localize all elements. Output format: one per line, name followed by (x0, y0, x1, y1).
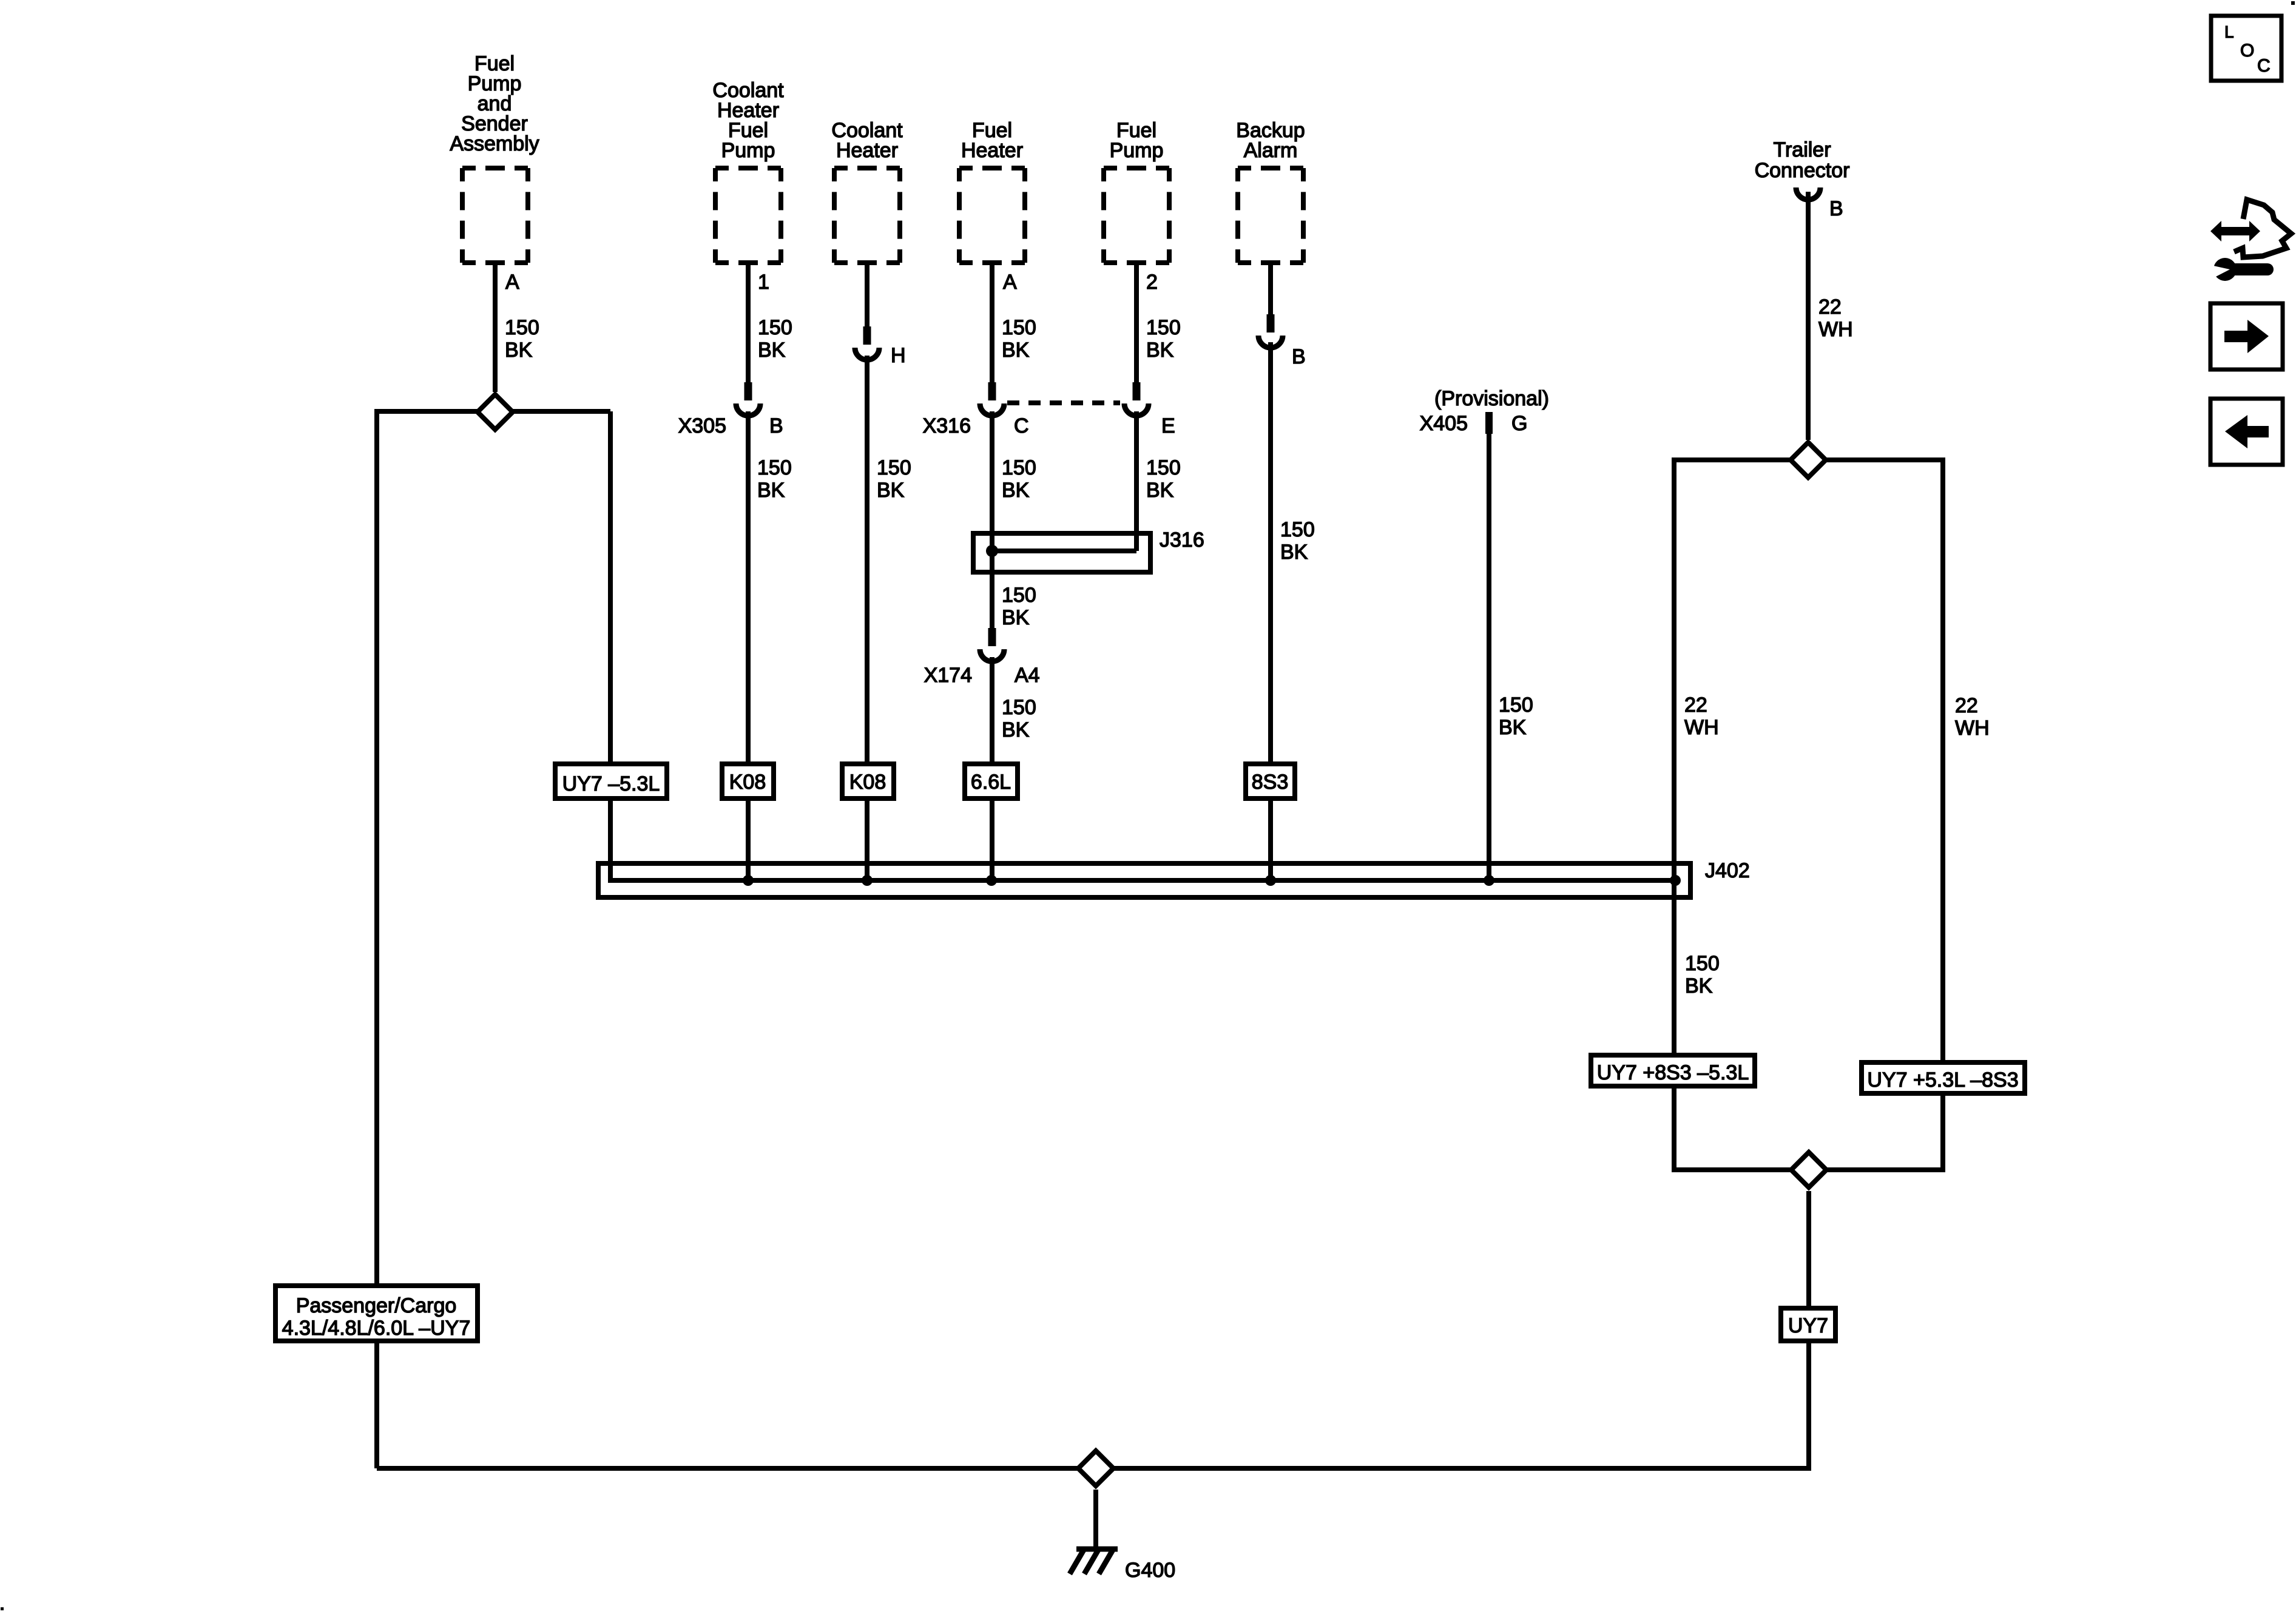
wire label 150 BK below J316 (1002, 584, 1036, 629)
wire label 150 BK x316 e (1146, 456, 1181, 502)
svg-text:150: 150 (1146, 456, 1181, 479)
wire Trailer Connector pin B down to diamond (1806, 192, 1811, 440)
svg-text:G: G (1511, 412, 1527, 435)
svg-text:Heater: Heater (836, 139, 898, 162)
svg-text:BK: BK (877, 479, 905, 502)
junction J402 at X405 wire (1484, 875, 1494, 886)
wire UY7 to bottom rail (1806, 1341, 1811, 1471)
wire left distribution rail (150 BK) (374, 409, 379, 1468)
wire K08 to J402 (865, 798, 869, 880)
svg-text:150: 150 (1002, 584, 1036, 607)
wire left trailer rail (22 WH) through J402 (1672, 457, 1676, 1055)
wire X174 A4 to 6.6L (990, 657, 994, 764)
wire label 150 BK below J402 (1685, 952, 1720, 998)
splice J316 outline (973, 533, 1150, 572)
wire lower diamond to UY7 (1806, 1191, 1811, 1308)
svg-text:WH: WH (1818, 318, 1853, 341)
wire UY7 +8S3 -5.3L to lower junction (1672, 1086, 1676, 1172)
junction J316 at wire C (986, 545, 998, 557)
wire Coolant Heater to connector H (865, 265, 869, 328)
label Coolant Heater (831, 119, 903, 162)
svg-text:C: C (1014, 414, 1029, 437)
svg-text:150: 150 (1146, 316, 1181, 339)
wire 8S3 to J402 (1268, 798, 1273, 880)
wire label 150 BK provisional (1499, 694, 1533, 739)
wire X316 C through J316 to X174 (990, 411, 994, 629)
component box Fuel Heater (959, 166, 1025, 170)
splice diamond below Trailer Connector (1791, 442, 1826, 478)
option box K08 (first) (722, 764, 774, 798)
svg-text:BK: BK (1280, 541, 1308, 564)
wire G400 diamond to ground (1093, 1490, 1098, 1549)
svg-text:Assembly: Assembly (450, 132, 539, 155)
component box Fuel Pump (1104, 166, 1169, 170)
wire Fuel Pump pin 2 to X316 E (1134, 265, 1139, 383)
icon hand with double arrow (2210, 200, 2291, 257)
svg-text:A4: A4 (1015, 664, 1040, 687)
svg-text:BK: BK (505, 339, 533, 362)
wire label 150 BK chfp upper (758, 316, 792, 362)
svg-text:UY7 +5.3L –8S3: UY7 +5.3L –8S3 (1867, 1068, 2018, 1092)
svg-text:22: 22 (1684, 694, 1707, 717)
component box Backup Alarm (1238, 166, 1303, 170)
svg-text:K08: K08 (729, 771, 766, 794)
svg-text:150: 150 (757, 456, 792, 479)
wire label 150 BK x316 c (1002, 456, 1036, 502)
wire from Fuel Pump and Sender Assembly pin A (493, 265, 498, 392)
junction J402 at trailer rail (1670, 875, 1681, 886)
connector X174 pin A4 (988, 628, 996, 646)
svg-text:4.3L/4.8L/6.0L –UY7: 4.3L/4.8L/6.0L –UY7 (282, 1317, 471, 1340)
svg-text:6.6L: 6.6L (971, 771, 1011, 794)
wire label 150 BK coolant heater (877, 456, 911, 502)
wire H to K08 (865, 356, 869, 764)
svg-text:Alarm: Alarm (1244, 139, 1298, 162)
icon arrow right box (2210, 303, 2283, 370)
svg-text:150: 150 (1499, 694, 1533, 717)
connector X316 pin E (1133, 382, 1141, 400)
junction J402 at K08 wire 2 (862, 875, 873, 886)
component box Coolant Heater Fuel Pump (715, 166, 781, 170)
svg-text:J402: J402 (1705, 859, 1750, 882)
svg-text:150: 150 (1685, 952, 1720, 975)
svg-text:BK: BK (1685, 974, 1713, 998)
option box 6.6L (965, 764, 1018, 798)
svg-text:UY7 –5.3L: UY7 –5.3L (562, 772, 660, 795)
component box Fuel Pump and Sender Assembly (462, 166, 528, 170)
svg-text:X305: X305 (678, 414, 726, 437)
connector Trailer Connector pin B (1796, 187, 1820, 200)
wire label 150 BK sender (505, 316, 539, 362)
label Fuel Pump and Sender Assembly (450, 52, 539, 155)
wire UY7 +5.3L -8S3 to lower junction (1940, 1093, 1945, 1172)
svg-text:150: 150 (758, 316, 792, 339)
splice bus J316 (992, 549, 1136, 553)
svg-text:22: 22 (1818, 295, 1842, 319)
svg-text:(Provisional): (Provisional) (1434, 387, 1549, 410)
wire B to 8S3 (1268, 342, 1273, 764)
wire trailer split horizontal (1673, 457, 1943, 462)
svg-text:150: 150 (1002, 456, 1036, 479)
wire K08 to J402 (746, 798, 751, 880)
dashed link X316 C to E (1007, 400, 1120, 405)
ground G400 (1070, 1548, 1118, 1574)
component box Coolant Heater (834, 166, 900, 170)
svg-text:E: E (1161, 414, 1175, 437)
wire UY7 -5.3L to J402 (608, 798, 613, 883)
splice J402 outline (598, 863, 1690, 897)
label Fuel Heater (961, 119, 1023, 162)
svg-text:Heater: Heater (961, 139, 1023, 162)
svg-text:J316: J316 (1160, 528, 1204, 552)
svg-text:BK: BK (1146, 479, 1174, 502)
label Trailer Connector (1755, 138, 1850, 182)
svg-text:BK: BK (1002, 718, 1030, 741)
svg-text:BK: BK (758, 339, 786, 362)
svg-text:BK: BK (1146, 339, 1174, 362)
svg-text:A: A (505, 271, 519, 294)
junction J402 at 8S3 wire (1265, 875, 1276, 886)
svg-text:H: H (891, 344, 906, 367)
svg-text:WH: WH (1684, 716, 1719, 739)
connector X316 pin C (988, 382, 996, 400)
junction J402 at 6.6L wire (986, 875, 997, 886)
wire Coolant Heater Fuel Pump pin 1 to X305 (746, 265, 751, 383)
connector X305 pin B (745, 382, 752, 400)
wire label 22 WH trailer (1818, 295, 1853, 341)
svg-text:BK: BK (757, 479, 785, 502)
icon wrench (2208, 258, 2267, 281)
label Coolant Heater Fuel Pump (712, 79, 784, 162)
svg-text:B: B (1829, 197, 1843, 220)
svg-text:G400: G400 (1125, 1559, 1175, 1582)
wire X405 G provisional to J402 (1487, 433, 1491, 880)
wire label 150 BK backup alarm (1280, 518, 1315, 564)
svg-text:Pump: Pump (721, 139, 775, 162)
splice diamond G400 (1078, 1451, 1113, 1486)
svg-text:2: 2 (1146, 271, 1158, 294)
svg-text:150: 150 (505, 316, 539, 339)
svg-text:BK: BK (1002, 606, 1030, 629)
wire branch to UY7 -5.3L (608, 411, 613, 764)
svg-text:X405: X405 (1420, 412, 1468, 435)
svg-text:C: C (2257, 56, 2271, 76)
label Fuel Pump (1110, 119, 1164, 162)
wire label 22 WH right rail (1955, 694, 1990, 740)
option box UY7 (1781, 1308, 1835, 1341)
svg-text:BK: BK (1002, 339, 1030, 362)
svg-text:K08: K08 (849, 771, 886, 794)
wire lower junction horizontal (1674, 1167, 1943, 1172)
svg-text:Passenger/Cargo: Passenger/Cargo (296, 1294, 457, 1317)
svg-text:B: B (769, 414, 783, 437)
svg-text:150: 150 (877, 456, 911, 479)
option label Passenger/Cargo (282, 1294, 471, 1340)
svg-text:BK: BK (1499, 716, 1527, 739)
wire X316 E to J316 splice (1134, 411, 1139, 551)
svg-text:UY7 +8S3 –5.3L: UY7 +8S3 –5.3L (1597, 1061, 1749, 1084)
svg-text:22: 22 (1955, 694, 1978, 717)
svg-text:BK: BK (1002, 479, 1030, 502)
option box 8S3 (1246, 764, 1295, 798)
wire right trailer rail (22 WH) (1940, 457, 1945, 1062)
svg-text:150: 150 (1280, 518, 1315, 541)
splice diamond below Fuel Pump Sender (478, 394, 513, 430)
wire label 150 BK below X174 (1002, 696, 1036, 741)
svg-text:1: 1 (758, 271, 769, 294)
svg-text:Trailer: Trailer (1773, 138, 1831, 161)
option box UY7 +5.3L -8S3 (1862, 1062, 2025, 1093)
connector H Coolant Heater (863, 326, 871, 345)
wire label 22 WH left rail (1684, 694, 1719, 739)
svg-text:A: A (1003, 271, 1017, 294)
wire left horizontal at splice diamond (377, 409, 610, 414)
option box K08 (second) (842, 764, 894, 798)
splice diamond above UY7 (1791, 1152, 1826, 1187)
option box UY7 +8S3 -5.3L (1591, 1055, 1755, 1086)
page corner mark (2291, 1, 2295, 5)
wire label 150 BK chfp lower (757, 456, 792, 502)
svg-text:150: 150 (1002, 696, 1036, 719)
svg-text:X316: X316 (923, 414, 971, 437)
wire Backup Alarm to connector B (1268, 265, 1273, 316)
svg-text:WH: WH (1955, 717, 1990, 740)
svg-text:UY7: UY7 (1788, 1314, 1828, 1337)
svg-text:8S3: 8S3 (1252, 771, 1289, 794)
wire 6.6L to J402 (990, 798, 994, 880)
svg-text:150: 150 (1002, 316, 1036, 339)
connector X405 pin G provisional (1485, 412, 1493, 434)
connector B Backup Alarm (1267, 314, 1275, 333)
wire bottom ground rail (377, 1466, 1809, 1471)
icon arrow left box (2210, 399, 2283, 465)
option box UY7 -5.3L (555, 764, 667, 798)
wire X305 B to K08 (746, 411, 751, 764)
svg-text:Pump: Pump (1110, 139, 1164, 162)
splice bus J402 (610, 878, 1675, 883)
svg-text:X174: X174 (924, 664, 972, 687)
svg-text:L: L (2224, 22, 2234, 41)
svg-text:O: O (2240, 41, 2254, 61)
svg-text:Connector: Connector (1755, 159, 1850, 182)
label Backup Alarm (1236, 119, 1305, 162)
icon LOC box (2211, 16, 2281, 81)
wire Fuel Heater pin A to X316 C (990, 265, 994, 383)
svg-text:B: B (1292, 345, 1306, 368)
wire label 150 BK fuel pump upper (1146, 316, 1181, 362)
option box Passenger/Cargo (275, 1286, 478, 1341)
junction J402 at K08 wire (743, 875, 754, 886)
wire label 150 BK fuel heater upper (1002, 316, 1036, 362)
